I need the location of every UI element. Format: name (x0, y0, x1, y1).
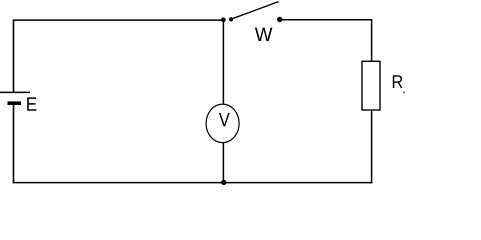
wire right vertical lower (371, 110, 373, 183)
wire left vertical upper (13, 19, 15, 92)
wire top-left horizontal (13, 19, 224, 21)
junction dot bottom (221, 180, 226, 185)
label V (219, 113, 230, 127)
junction dot at voltmeter branch (221, 17, 226, 22)
label R period (403, 91, 405, 93)
wire top-right horizontal (280, 19, 373, 21)
battery E (0, 92, 30, 105)
wire bottom horizontal (13, 182, 373, 184)
wire right vertical upper (371, 19, 373, 61)
label W (255, 28, 273, 41)
switch W (229, 2, 282, 23)
resistor R (362, 61, 380, 110)
label E (27, 97, 36, 110)
voltmeter V (206, 104, 239, 143)
label R (393, 75, 403, 88)
wire middle vertical upper (222, 20, 224, 104)
wire left vertical lower (13, 105, 15, 183)
wire middle vertical lower (222, 143, 224, 183)
